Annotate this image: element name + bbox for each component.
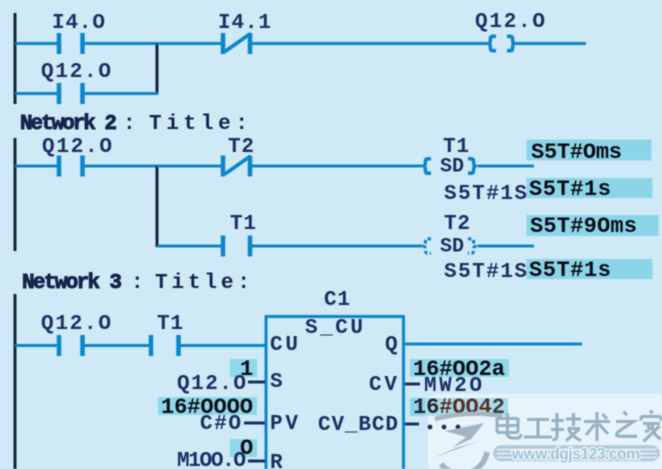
highlight box S5T#1s (row 2) bbox=[527, 177, 653, 202]
wire branch to contact I4.1 bbox=[157, 42, 221, 45]
svg-text:T2: T2 bbox=[444, 213, 470, 236]
wire contact Q12.0 to branch bbox=[85, 92, 159, 95]
wire contact T2 to coil T1 bbox=[252, 165, 422, 168]
svg-text:S5T#1s: S5T#1s bbox=[529, 258, 611, 283]
NO contact I4.0 bbox=[59, 33, 83, 54]
label I4.1 bbox=[218, 12, 271, 35]
label Q12.0 bbox=[41, 313, 111, 336]
counter block S_CU C1 bbox=[265, 315, 406, 469]
watermark text 电工技术之家 bbox=[497, 411, 661, 442]
NC contact I4.1 bbox=[223, 33, 251, 54]
wire branch to contact T2 bbox=[157, 165, 221, 168]
svg-text:C#O: C#O bbox=[200, 413, 241, 436]
highlight value 16#0000 at pin PV bbox=[158, 395, 257, 420]
svg-text:C1: C1 bbox=[324, 289, 350, 312]
svg-text:Q12.O: Q12.O bbox=[41, 61, 111, 84]
label I4.0 bbox=[52, 12, 105, 35]
svg-text:S: S bbox=[270, 371, 283, 394]
label C1 bbox=[324, 289, 350, 312]
svg-text:T1: T1 bbox=[157, 313, 183, 336]
operand C#0 at pin PV bbox=[200, 413, 241, 436]
value S5T#1S under coil T1 bbox=[444, 183, 527, 206]
wire contact T1 to coil T2 bbox=[252, 245, 422, 248]
NO contact Q12.0 bbox=[59, 83, 83, 104]
label T1 row 3 bbox=[230, 213, 256, 236]
svg-text::: : bbox=[131, 272, 144, 295]
svg-text:Q12.O: Q12.O bbox=[475, 11, 545, 34]
coil Q12.0 bbox=[489, 36, 514, 50]
pin Q bbox=[385, 334, 398, 357]
svg-text:S5T#1s: S5T#1s bbox=[529, 177, 611, 202]
svg-text:S5T#1S: S5T#1S bbox=[444, 261, 527, 284]
power rail network 2 bbox=[14, 138, 17, 251]
wire from pin Q bbox=[405, 343, 582, 346]
svg-text::: : bbox=[123, 113, 136, 136]
wire contact I4.1 to coil Q12.0 bbox=[252, 42, 487, 45]
network 3 title bbox=[22, 272, 250, 295]
wire contact T1 to counter block bbox=[181, 344, 266, 347]
svg-text:T1: T1 bbox=[230, 213, 256, 236]
pin CU bbox=[270, 334, 298, 357]
timer coil T1 (SD) bbox=[424, 156, 475, 179]
wire operand to pin S bbox=[248, 381, 265, 384]
label Q12.0 bbox=[42, 136, 112, 159]
svg-text:SD: SD bbox=[440, 156, 464, 179]
svg-text:Q12.O: Q12.O bbox=[41, 313, 111, 336]
label T1 coil bbox=[443, 136, 469, 159]
wire branch to contact T1 bbox=[157, 245, 221, 248]
label Q12.0 second rung bbox=[41, 61, 111, 84]
pin R bbox=[270, 452, 283, 469]
wire operand to pin R bbox=[248, 460, 265, 463]
highlight value 16#002a at pin CV bbox=[410, 357, 509, 382]
wire contact Q12.0 to contact T1 bbox=[85, 344, 150, 347]
branch line network 2 bbox=[156, 166, 159, 247]
wire rail to contact Q12.0 bbox=[15, 92, 57, 95]
watermark background panel bbox=[428, 394, 662, 469]
svg-text:CV_BCD: CV_BCD bbox=[318, 414, 398, 437]
svg-text:Network 3: Network 3 bbox=[22, 272, 122, 295]
block type label S_CU bbox=[305, 317, 363, 340]
pin CV bbox=[369, 374, 397, 397]
operand MW20 bbox=[424, 375, 482, 398]
wire rail to contact Q12.0 bbox=[15, 344, 57, 347]
wire rail to contact Q12.0 bbox=[15, 165, 57, 168]
wire pin CV_BCD to empty operand bbox=[405, 423, 419, 426]
label T1 bbox=[157, 313, 183, 336]
svg-text:SD: SD bbox=[440, 236, 464, 259]
value S5T#1S under coil T2 bbox=[444, 261, 527, 284]
wire pin CV to operand MW20 bbox=[405, 383, 420, 386]
wire after coil T1 bbox=[478, 165, 534, 168]
power rail network 3 bbox=[14, 294, 17, 469]
NO contact Q12.0 bbox=[59, 156, 83, 177]
power rail network 1 bbox=[14, 13, 17, 104]
svg-text:S5T#Oms: S5T#Oms bbox=[531, 140, 622, 165]
svg-text:Network 2: Network 2 bbox=[20, 113, 117, 136]
NC contact T2 bbox=[223, 156, 251, 177]
wire operand to pin PV bbox=[244, 422, 265, 425]
pin PV bbox=[270, 413, 298, 436]
operand M100.0 at pin R bbox=[177, 450, 246, 469]
svg-text:Q12.O: Q12.O bbox=[177, 373, 246, 396]
wire rail to contact I4.0 bbox=[15, 42, 57, 45]
network 2 title bbox=[20, 113, 248, 136]
timer coil T2 (SD) bbox=[424, 236, 475, 259]
svg-text:M1OO.O: M1OO.O bbox=[177, 450, 246, 469]
highlight value 0 at pin R bbox=[230, 436, 257, 461]
pin CV_BCD bbox=[318, 414, 398, 437]
svg-text:Q12.O: Q12.O bbox=[42, 136, 112, 159]
svg-text:R: R bbox=[270, 452, 283, 469]
svg-text:I4.1: I4.1 bbox=[218, 12, 271, 35]
highlight value 1 at pin S bbox=[230, 357, 257, 382]
svg-text:S5T#1S: S5T#1S bbox=[444, 183, 527, 206]
NO contact T1 bbox=[151, 335, 179, 356]
watermark url pill bbox=[493, 445, 661, 464]
wire after coil T2 bbox=[478, 245, 534, 248]
svg-text:www.dgjs123.com: www.dgjs123.com bbox=[511, 446, 640, 463]
wire contact I4.0 to branch node bbox=[85, 42, 159, 45]
NO contact T1 bbox=[223, 236, 250, 257]
watermark logo bbox=[433, 414, 502, 469]
label T2 bbox=[228, 136, 254, 159]
operand Q12.0 at pin S bbox=[177, 373, 246, 396]
highlight box S5T#1s (row 4) bbox=[527, 258, 653, 283]
NO contact Q12.0 bbox=[59, 335, 83, 356]
wire after coil Q12.0 bbox=[516, 42, 586, 45]
wire contact Q12.0 to branch node bbox=[85, 165, 159, 168]
highlight box S5T#90ms bbox=[527, 214, 659, 239]
svg-text:Q: Q bbox=[385, 334, 398, 357]
highlight value 16#0042 at pin CV_BCD bbox=[410, 395, 508, 420]
pin S bbox=[270, 371, 283, 394]
svg-text:S5T#9Oms: S5T#9Oms bbox=[530, 214, 637, 239]
svg-text:I4.O: I4.O bbox=[52, 12, 105, 35]
label T2 coil bbox=[444, 213, 470, 236]
branch line network 1 bbox=[156, 44, 159, 95]
empty operand dots at CV_BCD bbox=[428, 425, 461, 430]
label Q12.0 coil bbox=[475, 11, 545, 34]
highlight box S5T#0ms bbox=[527, 140, 652, 166]
